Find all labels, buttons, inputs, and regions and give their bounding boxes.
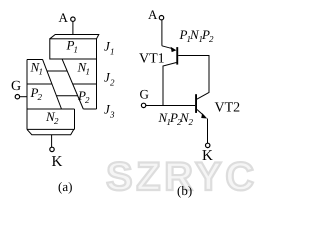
VT1 emitter arrowhead xyxy=(171,47,177,52)
VT2 emitter with arrow xyxy=(197,110,204,116)
top edge of left N1 region xyxy=(27,59,43,61)
svg-text:2: 2 xyxy=(38,92,43,102)
wire A down xyxy=(161,20,163,46)
diagonal A (left split line) xyxy=(43,59,62,109)
svg-text:K: K xyxy=(52,154,63,170)
svg-text:K: K xyxy=(202,148,213,164)
junction J2 divider left side xyxy=(27,83,52,85)
junction J2 divider inside slanted band xyxy=(47,70,67,72)
terminal G circle xyxy=(15,95,19,99)
svg-text:2: 2 xyxy=(189,117,194,127)
svg-text:2: 2 xyxy=(110,78,115,88)
svg-text:1: 1 xyxy=(86,67,91,77)
VT1 collector to G node xyxy=(163,63,176,106)
terminal K circle xyxy=(206,143,210,147)
svg-text:A: A xyxy=(59,10,69,25)
bottom edge left column / N2 top xyxy=(27,108,75,110)
VT2 base bar xyxy=(195,94,197,113)
svg-text:3: 3 xyxy=(109,110,115,120)
wire G to VT2 base xyxy=(146,105,195,107)
svg-text:A: A xyxy=(148,7,158,22)
bottom edge right column xyxy=(83,108,96,110)
terminal A circle xyxy=(159,16,163,20)
svg-text:1: 1 xyxy=(110,47,115,57)
left edge of stack xyxy=(26,60,28,130)
terminal K circle xyxy=(50,147,54,151)
svg-text:(b): (b) xyxy=(177,183,192,198)
wire to K xyxy=(51,135,53,148)
VT1 emitter wire with arrow into base xyxy=(162,46,173,49)
svg-text:G: G xyxy=(11,79,21,94)
svg-text:2: 2 xyxy=(85,95,90,105)
P1 box lid (3D top face) xyxy=(50,35,99,39)
wire A to P1 lid xyxy=(72,22,74,35)
N2 box sides xyxy=(74,109,76,129)
P1 box xyxy=(50,39,97,59)
wire VT1 base to VT2 collector xyxy=(178,56,209,100)
svg-text:G: G xyxy=(140,87,149,102)
svg-text:1: 1 xyxy=(39,67,44,77)
junction J2 divider right side xyxy=(73,83,97,85)
terminal A circle xyxy=(71,17,75,21)
svg-text:1: 1 xyxy=(74,45,79,55)
wire G to P2 xyxy=(20,96,27,98)
svg-text:2: 2 xyxy=(209,34,214,44)
svg-text:2: 2 xyxy=(54,116,59,126)
svg-text:(a): (a) xyxy=(58,179,72,194)
svg-text:VT1: VT1 xyxy=(139,52,165,67)
junction J3 divider inside slanted band xyxy=(56,95,77,97)
right edge of stack xyxy=(96,59,98,109)
N2 bottom 3D face xyxy=(27,129,74,134)
terminal G circle xyxy=(141,103,145,107)
diagonal B (right split line) xyxy=(62,59,83,109)
N2 box bottom xyxy=(27,128,75,130)
VT1 base bar xyxy=(176,47,178,65)
VT2 emitter arrowhead xyxy=(201,113,207,118)
VT2 emitter wire down to K xyxy=(207,119,209,144)
svg-text:VT2: VT2 xyxy=(215,101,241,116)
